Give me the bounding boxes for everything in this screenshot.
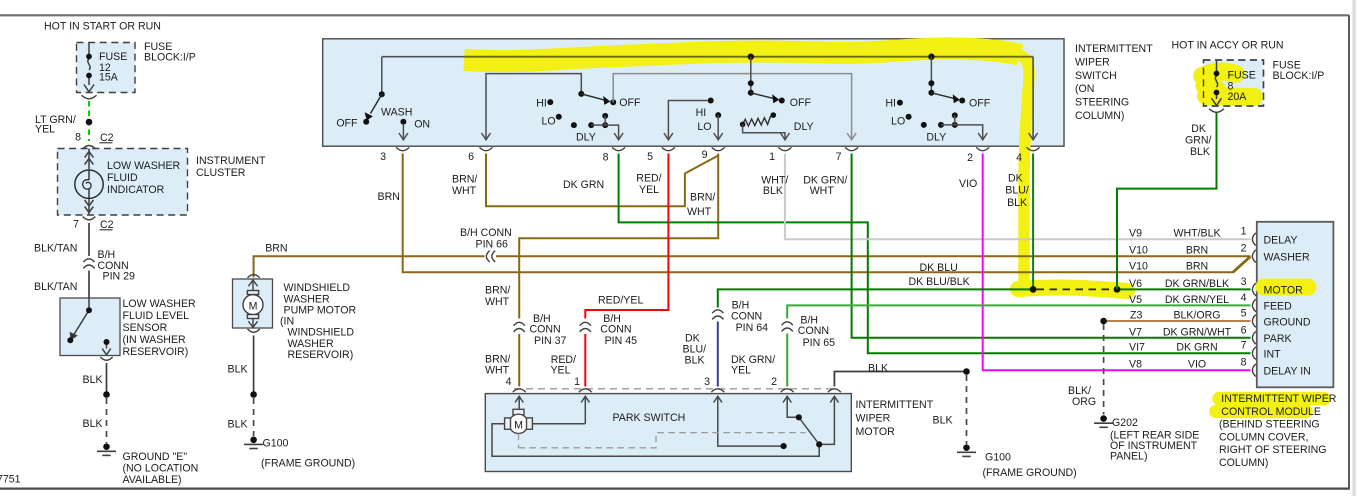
svg-text:8: 8 bbox=[603, 152, 609, 164]
group2 DLY contact and wire to pin 8 bbox=[588, 122, 594, 128]
wire BRN switch pin 3 to module pin 2 bbox=[403, 154, 1251, 273]
svg-text:DK GRN: DK GRN bbox=[1176, 342, 1217, 354]
svg-text:PIN 66: PIN 66 bbox=[476, 239, 508, 251]
svg-text:GRN/: GRN/ bbox=[1185, 135, 1212, 147]
group2 spare contact bbox=[571, 122, 577, 128]
wire BRN/WHT to park pin 4 cup bbox=[518, 334, 520, 387]
fuse F12 element bbox=[84, 43, 94, 92]
wire DK GRN switch pin 8 to module pin 7 (INT) bbox=[619, 154, 1251, 354]
svg-text:Z3: Z3 bbox=[1130, 310, 1142, 322]
svg-text:HI: HI bbox=[885, 97, 896, 109]
LAYER-WIRES bbox=[67, 43, 1263, 457]
connector cup under fuse 8 bbox=[1209, 109, 1224, 113]
B/H CONN PIN 66 break bbox=[486, 251, 495, 262]
svg-text:PANEL): PANEL) bbox=[1110, 451, 1147, 463]
intermittent wiper control module box bbox=[1257, 222, 1334, 387]
svg-text:PARK: PARK bbox=[1264, 333, 1292, 345]
highlighter over FUSE 8 block bbox=[1202, 72, 1236, 76]
svg-text:3: 3 bbox=[380, 151, 386, 163]
node: feed junction group3 bbox=[748, 54, 754, 60]
svg-text:CONN: CONN bbox=[731, 310, 762, 322]
svg-text:BLK: BLK bbox=[868, 363, 888, 375]
connector cup under sensor bbox=[100, 357, 112, 360]
svg-text:COLUMN COVER,: COLUMN COVER, bbox=[1219, 431, 1308, 443]
svg-text:4: 4 bbox=[506, 376, 512, 388]
svg-text:C2: C2 bbox=[100, 132, 114, 144]
svg-text:RESERVOIR): RESERVOIR) bbox=[123, 346, 189, 358]
svg-text:FLUID LEVEL: FLUID LEVEL bbox=[123, 310, 190, 322]
group2 LO contact bbox=[556, 114, 562, 120]
svg-text:PUMP MOTOR: PUMP MOTOR bbox=[284, 305, 357, 317]
park switch / intermittent wiper motor box bbox=[485, 394, 851, 472]
wiper motor circuit wires bbox=[492, 424, 819, 457]
svg-text:DK: DK bbox=[1191, 123, 1206, 135]
svg-text:5: 5 bbox=[647, 151, 653, 163]
connector cup under fuse 12 bbox=[82, 95, 97, 99]
svg-text:BLK: BLK bbox=[685, 355, 705, 367]
wire BLK wiper motor to G100 bbox=[834, 372, 965, 387]
svg-text:DLY: DLY bbox=[794, 121, 814, 133]
node: feed junction group4 bbox=[928, 54, 934, 60]
svg-text:G100: G100 bbox=[985, 452, 1011, 464]
switch pin cups bbox=[396, 147, 1039, 150]
svg-text:CLUSTER: CLUSTER bbox=[196, 167, 246, 179]
fuse F8 element bbox=[1212, 60, 1222, 106]
svg-text:WHT/BLK: WHT/BLK bbox=[1173, 228, 1220, 240]
park switch pin 5 arrow bbox=[819, 396, 838, 444]
svg-text:3: 3 bbox=[704, 376, 710, 388]
svg-text:B/H CONN: B/H CONN bbox=[460, 227, 512, 239]
svg-text:VI7: VI7 bbox=[1129, 342, 1145, 354]
svg-text:7751: 7751 bbox=[0, 474, 21, 486]
svg-text:RIGHT OF STEERING: RIGHT OF STEERING bbox=[1219, 444, 1327, 456]
wire VIO switch pin 2 to module pin 8 (DELAY IN) bbox=[983, 154, 1251, 371]
svg-text:AVAILABLE): AVAILABLE) bbox=[123, 474, 182, 486]
svg-text:BLK: BLK bbox=[763, 185, 783, 197]
switch feed wire (from fuse 8, inside box) bbox=[382, 56, 464, 58]
svg-text:BLK: BLK bbox=[933, 415, 953, 427]
svg-text:V10: V10 bbox=[1129, 245, 1148, 257]
intermittent wiper switch box bbox=[323, 39, 1064, 146]
wire BLK dashed to G100 left bbox=[253, 398, 255, 436]
svg-text:INTERMITTENT WIPER: INTERMITTENT WIPER bbox=[1221, 393, 1337, 405]
svg-text:WHT: WHT bbox=[452, 185, 477, 197]
svg-text:V6: V6 bbox=[1129, 278, 1142, 290]
svg-text:WHT: WHT bbox=[687, 206, 712, 218]
svg-text:BRN/: BRN/ bbox=[690, 192, 715, 204]
group2 HI contact bbox=[547, 99, 553, 105]
group3 delay resistor bbox=[743, 116, 774, 126]
instrument cluster box bbox=[58, 149, 188, 216]
svg-text:OFF: OFF bbox=[336, 117, 358, 129]
low washer fluid level sensor box bbox=[60, 298, 120, 356]
WASH ON contact and pin 3 drop bbox=[400, 119, 406, 125]
svg-text:DK GRN/YEL: DK GRN/YEL bbox=[1165, 294, 1229, 306]
svg-text:YEL: YEL bbox=[35, 124, 55, 136]
group3 pivot drop from feed bbox=[750, 57, 752, 93]
svg-text:OFF: OFF bbox=[969, 97, 991, 109]
park switch pin cups bbox=[513, 389, 841, 392]
connector cup under washer pump motor bbox=[248, 329, 260, 332]
svg-text:BRN/: BRN/ bbox=[452, 174, 477, 186]
svg-text:GROUND "E": GROUND "E" bbox=[123, 451, 188, 463]
svg-text:SWITCH: SWITCH bbox=[1075, 70, 1117, 82]
highlighter descending to motor-feed jumper bbox=[1014, 53, 1029, 283]
svg-text:HOT IN START OR RUN: HOT IN START OR RUN bbox=[44, 21, 161, 33]
svg-text:FLUID: FLUID bbox=[107, 172, 138, 184]
B/H CONN PIN 65 break bbox=[782, 322, 793, 332]
svg-text:WASH: WASH bbox=[381, 107, 412, 119]
group4 HI contact bbox=[897, 100, 903, 106]
wire RED/YEL to park pin 1 cup bbox=[584, 334, 586, 387]
svg-text:CONN: CONN bbox=[600, 324, 631, 336]
park switch pin 2 arrow to blade pivot bbox=[783, 396, 799, 417]
svg-text:WASHER: WASHER bbox=[1264, 252, 1310, 264]
svg-text:6: 6 bbox=[1241, 324, 1247, 336]
svg-text:LO: LO bbox=[891, 116, 905, 128]
svg-text:BLK: BLK bbox=[1190, 146, 1210, 158]
wire BLK dashed to ground E bbox=[106, 398, 108, 443]
splice node bbox=[103, 391, 110, 398]
splice node BLK bbox=[963, 368, 970, 375]
svg-text:(FRAME GROUND): (FRAME GROUND) bbox=[983, 467, 1077, 479]
svg-text:DLY: DLY bbox=[576, 132, 596, 144]
low washer fluid indicator bulb bbox=[75, 170, 103, 198]
svg-text:WHT: WHT bbox=[485, 365, 510, 377]
group4 blade to OFF bbox=[931, 93, 955, 99]
svg-text:DELAY IN: DELAY IN bbox=[1264, 366, 1311, 378]
windshield washer pump motor box bbox=[233, 279, 273, 328]
svg-text:4: 4 bbox=[1241, 292, 1247, 304]
fuse block I/P (right, FUSE 8) bbox=[1204, 60, 1264, 106]
svg-text:V9: V9 bbox=[1129, 228, 1142, 240]
park switch pin 3 arrow and contact bbox=[714, 396, 784, 446]
svg-text:3: 3 bbox=[1241, 276, 1247, 288]
svg-text:HI: HI bbox=[696, 107, 707, 119]
svg-text:BRN: BRN bbox=[378, 191, 400, 203]
wiper motor M symbol bbox=[505, 409, 533, 433]
highlighter over dashed jumper to module MOTOR bbox=[1018, 288, 1127, 291]
dashed jumper between splices bbox=[1037, 288, 1114, 290]
svg-text:HI: HI bbox=[536, 98, 547, 110]
svg-text:C2: C2 bbox=[100, 219, 114, 231]
svg-text:(FRAME GROUND): (FRAME GROUND) bbox=[261, 458, 355, 470]
group2 blade to OFF bbox=[581, 94, 605, 100]
svg-text:INSTRUMENT: INSTRUMENT bbox=[196, 155, 266, 167]
svg-text:V10: V10 bbox=[1129, 261, 1148, 273]
WASH switch pivot drop bbox=[381, 57, 383, 94]
connector cup on washer pump motor bbox=[248, 275, 260, 278]
svg-text:7: 7 bbox=[836, 151, 842, 163]
svg-text:7: 7 bbox=[1241, 340, 1247, 352]
splice node on LT GRN/YEL bbox=[86, 119, 93, 126]
group4 LO contact bbox=[906, 114, 912, 120]
svg-text:YEL: YEL bbox=[639, 184, 659, 196]
wire Z3 BLK/ORG module pin 5 (GROUND) bbox=[1104, 320, 1251, 322]
LAYER-HIGHLIGHT bbox=[464, 48, 1324, 411]
svg-text:BLK: BLK bbox=[83, 374, 103, 386]
svg-text:DK GRN/BLK: DK GRN/BLK bbox=[1165, 278, 1229, 290]
svg-text:CONN: CONN bbox=[798, 325, 829, 337]
svg-text:15A: 15A bbox=[99, 72, 119, 84]
ground G100 right symbol bbox=[957, 444, 976, 456]
svg-text:(IN WASHER: (IN WASHER bbox=[123, 334, 187, 346]
svg-text:G100: G100 bbox=[263, 438, 289, 450]
svg-text:YEL: YEL bbox=[550, 365, 570, 377]
svg-text:BLU/: BLU/ bbox=[1005, 185, 1029, 197]
svg-text:M: M bbox=[514, 420, 523, 432]
wire: feed drop to pin 4 bbox=[1032, 57, 1034, 140]
wire DK BLU/BLK to park pin 3 cup bbox=[717, 322, 719, 387]
svg-text:WINDSHIELD: WINDSHIELD bbox=[284, 282, 351, 294]
svg-text:BRN: BRN bbox=[265, 243, 287, 255]
svg-text:V8: V8 bbox=[1129, 359, 1142, 371]
group4 pivot drop from feed bbox=[930, 57, 932, 93]
washer pump motor symbol bbox=[243, 279, 263, 328]
svg-text:(NO LOCATION: (NO LOCATION bbox=[123, 463, 199, 475]
svg-text:BLOCK:I/P: BLOCK:I/P bbox=[1273, 70, 1325, 82]
svg-text:(BEHIND STEERING: (BEHIND STEERING bbox=[1219, 419, 1320, 431]
ground G100 left symbol bbox=[244, 437, 263, 449]
svg-text:HOT IN ACCY OR RUN: HOT IN ACCY OR RUN bbox=[1172, 40, 1284, 52]
svg-text:7: 7 bbox=[73, 219, 79, 231]
wire DK GRN/BLK from fuse 8 to splice B bbox=[1117, 112, 1217, 289]
wire BLK from washer pump motor bbox=[253, 336, 255, 394]
park switch pin 1 arrow / motor lead bbox=[581, 396, 589, 424]
svg-text:INTERMITTENT: INTERMITTENT bbox=[1075, 43, 1153, 55]
svg-text:PIN 37: PIN 37 bbox=[534, 335, 566, 347]
wire BLK/TAN upper bbox=[88, 223, 90, 256]
svg-text:INT: INT bbox=[1264, 349, 1282, 361]
park switch pin 4 arrow bbox=[492, 396, 839, 456]
connector C2 pin 8 symbol bbox=[83, 146, 96, 150]
module pin cups bbox=[1252, 233, 1255, 377]
svg-text:DK GRN/WHT: DK GRN/WHT bbox=[1163, 326, 1232, 338]
svg-text:WIPER: WIPER bbox=[856, 412, 891, 424]
group2 OFF riser and link to pin 7 bbox=[613, 74, 851, 140]
svg-text:1: 1 bbox=[1241, 226, 1247, 238]
svg-text:DELAY: DELAY bbox=[1264, 235, 1298, 247]
splice node B bbox=[1114, 286, 1121, 293]
svg-text:PIN 29: PIN 29 bbox=[103, 271, 135, 283]
svg-text:BLK: BLK bbox=[228, 364, 248, 376]
svg-text:PIN 65: PIN 65 bbox=[803, 337, 835, 349]
svg-text:BLK/ORG: BLK/ORG bbox=[1173, 310, 1220, 322]
B/H CONN PIN 29 break bbox=[83, 259, 94, 269]
B/H CONN PIN 45 break bbox=[580, 322, 591, 332]
svg-text:1: 1 bbox=[769, 151, 775, 163]
svg-text:20A: 20A bbox=[1228, 91, 1248, 103]
svg-text:BLK: BLK bbox=[83, 418, 103, 430]
svg-text:BLK/TAN: BLK/TAN bbox=[34, 281, 77, 293]
highlighter over switch feed wire bbox=[464, 48, 1020, 61]
svg-text:8: 8 bbox=[1241, 357, 1247, 369]
group3 LO contact to pin 9 bbox=[715, 112, 721, 118]
group3 HI contact from pin 5 bbox=[668, 101, 707, 140]
svg-text:V5: V5 bbox=[1129, 294, 1142, 306]
svg-text:DLY: DLY bbox=[926, 132, 946, 144]
wire LT GRN/YEL (dashed) bbox=[88, 101, 90, 141]
svg-text:INDICATOR: INDICATOR bbox=[107, 184, 165, 196]
svg-text:G202: G202 bbox=[1112, 417, 1138, 429]
svg-text:DK GRN: DK GRN bbox=[563, 179, 604, 191]
B/H CONN PIN 37 break bbox=[514, 322, 525, 332]
svg-text:WIPER: WIPER bbox=[1075, 56, 1110, 68]
svg-text:8: 8 bbox=[75, 132, 81, 144]
svg-text:WHT: WHT bbox=[810, 185, 835, 197]
svg-text:2: 2 bbox=[967, 152, 973, 164]
svg-text:DK BLU/BLK: DK BLU/BLK bbox=[909, 276, 970, 288]
svg-text:M: M bbox=[249, 301, 258, 313]
svg-text:CONN: CONN bbox=[530, 324, 561, 336]
svg-text:(ON: (ON bbox=[1075, 83, 1094, 95]
svg-text:WINDSHIELD: WINDSHIELD bbox=[288, 327, 355, 339]
wiper motor mechanical dashed links bbox=[519, 433, 806, 448]
highlighter over module caption lines bbox=[1219, 392, 1324, 406]
svg-text:1: 1 bbox=[574, 376, 580, 388]
wire BRN/WHT switch pin 9 to park switch pin 4 bbox=[519, 154, 718, 319]
svg-text:FEED: FEED bbox=[1264, 301, 1293, 313]
connector C2 pin 7 symbol bbox=[83, 217, 96, 220]
svg-text:BLK/TAN: BLK/TAN bbox=[34, 243, 77, 255]
low washer fluid level sensor switch bbox=[71, 298, 111, 355]
wire BLK/TAN lower bbox=[88, 271, 90, 299]
wire BRN from washer pump motor bbox=[254, 256, 485, 277]
wire BLK from sensor bbox=[106, 363, 108, 393]
svg-text:4: 4 bbox=[1016, 152, 1022, 164]
svg-text:9: 9 bbox=[702, 149, 708, 161]
splice node Z3 bbox=[1100, 318, 1107, 325]
svg-text:ON: ON bbox=[414, 119, 430, 131]
svg-text:BLOCK:I/P: BLOCK:I/P bbox=[144, 52, 196, 64]
svg-text:STEERING: STEERING bbox=[1075, 97, 1129, 109]
wire DK GRN/YEL to park pin 2 cup bbox=[786, 334, 788, 387]
splice node bbox=[250, 391, 257, 398]
svg-text:BRN/: BRN/ bbox=[485, 285, 510, 297]
svg-text:5: 5 bbox=[1241, 308, 1247, 320]
svg-text:YEL: YEL bbox=[731, 365, 751, 377]
svg-text:BRN: BRN bbox=[1186, 261, 1208, 273]
highlighter over module MOTOR label bbox=[1264, 279, 1308, 296]
svg-text:CONTROL MODULE: CONTROL MODULE bbox=[1221, 406, 1321, 418]
svg-text:PARK SWITCH: PARK SWITCH bbox=[613, 412, 686, 424]
wire DK GRN/WHT switch pin 7 to module pin 6 (PARK) bbox=[852, 154, 1251, 338]
svg-text:LOW WASHER: LOW WASHER bbox=[107, 160, 181, 172]
svg-text:VIO: VIO bbox=[959, 178, 977, 190]
svg-text:2: 2 bbox=[1241, 243, 1247, 255]
svg-text:OFF: OFF bbox=[619, 97, 641, 109]
svg-text:COLUMN): COLUMN) bbox=[1075, 110, 1124, 122]
svg-text:DK: DK bbox=[1008, 172, 1023, 184]
svg-text:COLUMN): COLUMN) bbox=[1219, 457, 1268, 469]
group3 blade to OFF bbox=[751, 93, 775, 99]
svg-text:SENSOR: SENSOR bbox=[123, 322, 168, 334]
svg-text:GROUND: GROUND bbox=[1264, 316, 1311, 328]
wire V6 DK GRN/BLK module pin 3 (MOTOR) bbox=[1117, 288, 1251, 290]
wire BLK dashed to G100 right bbox=[966, 375, 968, 444]
svg-text:BRN: BRN bbox=[1186, 245, 1208, 257]
svg-text:MOTOR: MOTOR bbox=[856, 426, 896, 438]
park switch connector dashed line bbox=[514, 388, 834, 390]
svg-text:RESERVOIR): RESERVOIR) bbox=[288, 349, 354, 361]
fuse block F8 dashed border redraw bbox=[1204, 60, 1264, 106]
wire RED/YEL switch pin 5 down bbox=[585, 154, 668, 319]
group4 spare contact bbox=[921, 122, 927, 128]
svg-text:WHT: WHT bbox=[485, 296, 510, 308]
svg-text:V7: V7 bbox=[1129, 326, 1142, 338]
wire BLK/ORG dashed to G202 bbox=[1103, 324, 1105, 415]
park switch blade bbox=[799, 417, 819, 444]
svg-text:2: 2 bbox=[771, 376, 777, 388]
wire WHT/BLK switch pin 1 to module pin 1 (DELAY) bbox=[785, 154, 1251, 240]
svg-text:BLK: BLK bbox=[1007, 197, 1027, 209]
wire DK BLU/BLK switch pin 4 to splice bbox=[1032, 154, 1034, 290]
svg-text:INTERMITTENT: INTERMITTENT bbox=[856, 399, 934, 411]
fuse block I/P (left, FUSE 12) bbox=[77, 43, 136, 93]
svg-text:MOTOR: MOTOR bbox=[1264, 285, 1304, 297]
wire V5 DK GRN/YEL module pin 4 (FEED) to park pin 2 bbox=[787, 305, 1250, 318]
svg-text:PIN 64: PIN 64 bbox=[736, 322, 768, 334]
instrument cluster internal wire and arrows bbox=[85, 149, 94, 216]
svg-text:RED/YEL: RED/YEL bbox=[598, 295, 643, 307]
svg-text:DK BLU: DK BLU bbox=[920, 262, 958, 274]
svg-text:6: 6 bbox=[468, 151, 474, 163]
svg-text:OFF: OFF bbox=[790, 97, 812, 109]
group3 resistor tail to pin 1 bbox=[743, 124, 785, 139]
svg-text:LO: LO bbox=[697, 121, 711, 133]
svg-text:RED/: RED/ bbox=[636, 173, 661, 185]
svg-text:BLK: BLK bbox=[228, 419, 248, 431]
B/H CONN PIN 64 break bbox=[712, 310, 723, 320]
svg-text:LO: LO bbox=[541, 116, 555, 128]
group4 DLY contact and wire to pin 2 bbox=[938, 122, 944, 128]
svg-text:LOW WASHER: LOW WASHER bbox=[123, 298, 197, 310]
WASH switch blade to OFF bbox=[371, 94, 382, 113]
wire BRN continuing to module pin 2 bbox=[496, 255, 1251, 257]
svg-text:VIO: VIO bbox=[1188, 359, 1206, 371]
wire BRN/WHT switch pin 6 to pin 9 bbox=[486, 154, 718, 207]
ground E symbol bbox=[97, 443, 116, 455]
svg-text:PIN 45: PIN 45 bbox=[605, 335, 637, 347]
group2 riser from pin 6 bbox=[486, 74, 581, 140]
svg-text:ORG: ORG bbox=[1072, 396, 1096, 408]
splice node A bbox=[1030, 286, 1037, 293]
ground G202 symbol bbox=[1094, 415, 1113, 427]
